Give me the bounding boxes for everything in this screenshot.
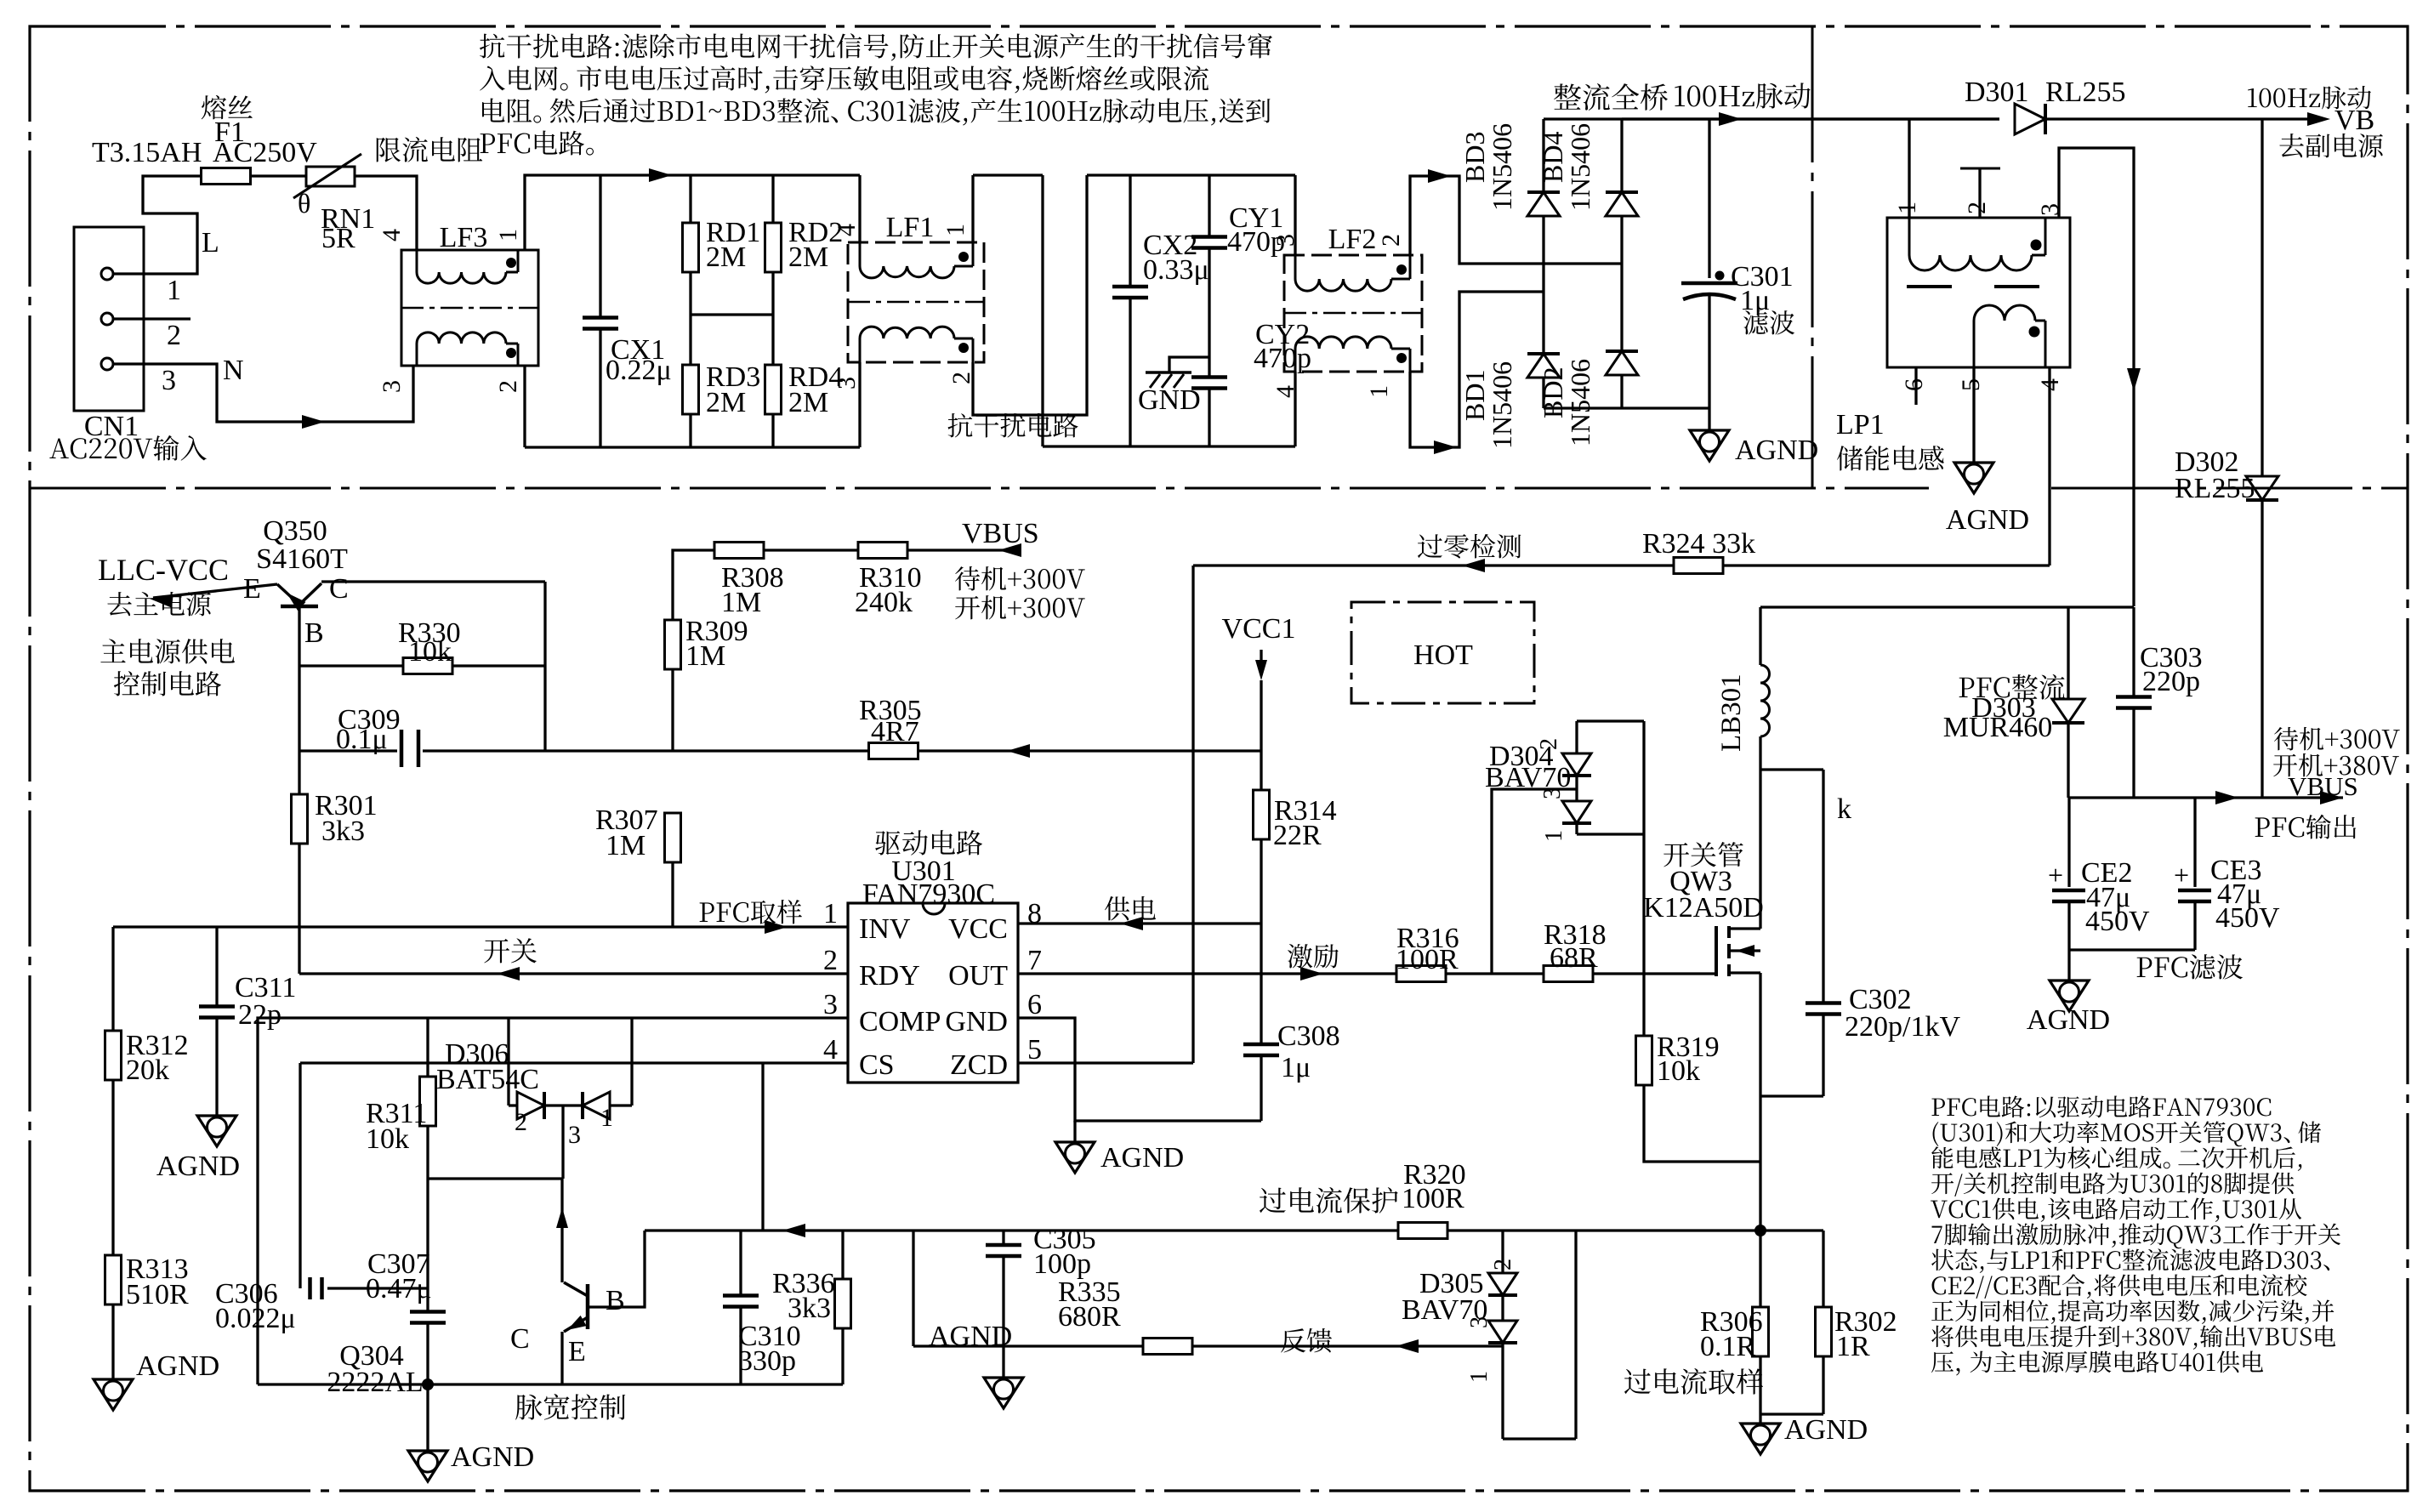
svg-text:3: 3 — [823, 989, 838, 1020]
wire LF3 pin2 to bottom bus — [523, 366, 526, 447]
svg-text:INV: INV — [859, 913, 911, 945]
svg-text:1: 1 — [1365, 385, 1393, 398]
wire LF2 pin3 riser — [1294, 175, 1296, 255]
svg-text:470p: 470p — [1254, 343, 1311, 374]
svg-text:AGND: AGND — [1735, 435, 1818, 466]
drive line 激励 — [1016, 972, 1019, 975]
svg-text:ZCD: ZCD — [950, 1049, 1008, 1081]
resistor R310 — [858, 543, 907, 559]
svg-text:3: 3 — [833, 377, 861, 389]
svg-text:HOT: HOT — [1413, 639, 1473, 671]
wire QW3 source down — [1759, 973, 1761, 1231]
svg-text:COMP: COMP — [859, 1006, 941, 1037]
svg-text:2: 2 — [167, 320, 181, 351]
HOT zone box — [1351, 602, 1534, 703]
svg-text:2M: 2M — [706, 242, 746, 273]
label 主电源供电控制电路 — [100, 639, 125, 662]
diode D303 — [2067, 607, 2069, 699]
svg-text:2: 2 — [1536, 738, 1562, 750]
svg-text:BD2: BD2 — [1538, 367, 1568, 418]
fuse F1 — [202, 168, 251, 185]
capacitor C311 — [215, 927, 218, 1007]
svg-text:100R: 100R — [1402, 1183, 1464, 1214]
wire LP1 pin1 from 100Hz bus — [1908, 119, 1910, 218]
svg-text:1M: 1M — [606, 830, 645, 861]
svg-text:220p: 220p — [2142, 666, 2200, 697]
capacitor C305 — [1002, 1231, 1004, 1245]
svg-text:4: 4 — [378, 229, 406, 242]
svg-text:1: 1 — [167, 275, 181, 306]
svg-text:1M: 1M — [721, 587, 761, 618]
svg-text:0.22μ: 0.22μ — [606, 355, 672, 386]
diode D302 — [2261, 119, 2263, 476]
svg-text:N: N — [223, 355, 244, 386]
svg-text:FAN7930C: FAN7930C — [862, 878, 995, 910]
svg-text:D301: D301 — [1965, 77, 2029, 108]
svg-text:AGND: AGND — [136, 1350, 219, 1382]
svg-text:7: 7 — [1027, 945, 1042, 976]
pulse width line 脉宽控制 — [258, 1383, 843, 1385]
diode BD4 — [1620, 119, 1623, 192]
hot/cold divider chain line — [30, 487, 1929, 490]
INV sampling line PFC取样 — [113, 925, 848, 928]
wire CN1 pin1 to fuse — [113, 176, 202, 274]
svg-text:1N5406: 1N5406 — [1565, 123, 1595, 211]
resistor R314 — [1260, 680, 1262, 792]
svg-text:E: E — [243, 573, 261, 605]
capacitor C309 — [299, 749, 397, 752]
svg-text:22p: 22p — [238, 999, 282, 1031]
svg-text:MUR460: MUR460 — [1943, 712, 2052, 743]
svg-text:VB: VB — [2334, 105, 2374, 136]
wire Q350 base down — [298, 606, 300, 666]
svg-text:0.022μ: 0.022μ — [215, 1303, 296, 1334]
svg-text:1N5406: 1N5406 — [1487, 361, 1517, 449]
resistor RD3 — [683, 365, 699, 414]
EMI bottom bus right — [1043, 445, 1295, 447]
svg-text:S4160T: S4160T — [256, 543, 348, 575]
LP1 primary winding — [1908, 218, 1911, 255]
svg-text:1R: 1R — [1836, 1331, 1870, 1362]
transistor Q304 — [586, 1284, 590, 1329]
wire CN1 pin3 to LF3 pin3 — [113, 364, 413, 422]
line filter LF2 — [1284, 255, 1422, 372]
capacitor C302 — [1822, 770, 1824, 1003]
COMP line — [258, 1018, 848, 1384]
svg-text:240k: 240k — [855, 587, 913, 618]
svg-text:LF2: LF2 — [1328, 224, 1377, 255]
svg-text:2: 2 — [515, 1108, 527, 1136]
label PFC滤波 — [2137, 958, 2152, 977]
ground AGND U301 — [1073, 1121, 1076, 1142]
wire fuse to RN1 — [250, 174, 306, 177]
svg-text:Q350: Q350 — [263, 515, 327, 547]
svg-text:1N5406: 1N5406 — [1487, 123, 1517, 211]
ground GND symbol — [1146, 371, 1191, 374]
svg-text:LB301: LB301 — [1716, 674, 1747, 752]
svg-text:T3.15AH: T3.15AH — [92, 137, 202, 168]
capacitor C308 — [1260, 924, 1262, 1045]
LP1 aux winding — [1973, 321, 1976, 367]
svg-text:B: B — [606, 1285, 625, 1316]
svg-text:510R: 510R — [126, 1279, 189, 1310]
resistor R324 — [1674, 558, 1723, 574]
capacitor C307 — [426, 1179, 429, 1312]
svg-text:4: 4 — [823, 1034, 838, 1066]
LP1 pin2 stub — [1978, 168, 1981, 218]
over-current protect line 过电流保护 — [645, 1229, 1823, 1231]
diode D306 dual BAT54C — [507, 1018, 509, 1106]
svg-text:3k3: 3k3 — [321, 816, 365, 847]
diode BD1 — [1527, 352, 1560, 355]
annotation paragraph top — [480, 34, 504, 59]
drain node wire k — [1760, 605, 2134, 608]
ground AGND LP1 — [1954, 463, 1993, 493]
diode D305 dual BAV70 — [1501, 1231, 1504, 1273]
VBUS output bus — [2069, 796, 2343, 799]
svg-text:0.33μ: 0.33μ — [1143, 254, 1209, 286]
svg-text:LF1: LF1 — [886, 212, 935, 243]
capacitor C310 — [739, 1231, 742, 1296]
svg-text:2: 2 — [823, 945, 838, 976]
svg-text:CN1: CN1 — [84, 411, 139, 442]
svg-text:1μ: 1μ — [1740, 285, 1770, 316]
svg-text:5: 5 — [1957, 378, 1985, 391]
svg-text:1: 1 — [823, 898, 838, 929]
zero-cross line 过零检测 — [1193, 564, 2050, 566]
svg-text:3: 3 — [1466, 1316, 1493, 1328]
wire LF2 pin2 to bridge AC1 — [1410, 176, 1622, 264]
svg-text:3: 3 — [378, 380, 406, 393]
svg-text:3: 3 — [162, 365, 176, 396]
resistor R301 — [298, 666, 300, 795]
svg-text:CS: CS — [859, 1049, 895, 1081]
svg-text:22R: 22R — [1273, 820, 1322, 851]
svg-text:k: k — [1837, 793, 1851, 825]
svg-text:1μ: 1μ — [1281, 1052, 1311, 1083]
resistor R309 — [665, 620, 681, 669]
svg-text:3k3: 3k3 — [788, 1293, 831, 1324]
svg-text:2: 2 — [1377, 234, 1405, 247]
svg-text:2M: 2M — [788, 387, 828, 418]
caption 整流全桥 — [1554, 83, 1581, 109]
resistor R335 — [1143, 1339, 1192, 1355]
wire rail swap vertical — [1041, 175, 1044, 446]
wire R307 to INV line — [671, 861, 674, 927]
svg-text:2: 2 — [1963, 202, 1991, 214]
wire R311 to Q304 collector link — [428, 1177, 563, 1179]
svg-text:3: 3 — [568, 1121, 581, 1149]
wire LF1 pin2 zigzag — [973, 175, 1087, 415]
resistor R313 — [105, 1255, 122, 1305]
svg-text:2: 2 — [947, 372, 975, 384]
wire LF1 pin1 riser — [971, 175, 974, 242]
svg-text:680R: 680R — [1058, 1301, 1121, 1333]
svg-text:0.47μ: 0.47μ — [366, 1273, 432, 1305]
svg-text:10k: 10k — [1657, 1055, 1700, 1087]
wire LP1 pin3 loop to drain node — [2059, 148, 2134, 606]
svg-text:4R7: 4R7 — [871, 716, 919, 747]
wire RN1 to LF3 pin4 — [355, 176, 417, 250]
EMI bottom bus left — [525, 446, 860, 448]
svg-text:3: 3 — [2036, 203, 2064, 216]
diode D304 dual — [1577, 719, 1644, 722]
wire LF2 pin1 to bridge AC2 — [1410, 292, 1544, 447]
inductor LP1 box — [1887, 218, 2070, 367]
transistor Q350 — [281, 605, 318, 609]
diode BD2 — [1606, 350, 1638, 353]
bridge bottom bus — [1544, 406, 1709, 409]
svg-text:3: 3 — [1539, 787, 1566, 799]
feedback line 反馈 — [912, 1231, 914, 1346]
svg-text:GND: GND — [945, 1006, 1008, 1037]
capacitor CX1 — [599, 175, 601, 318]
svg-text:C308: C308 — [1277, 1020, 1340, 1052]
wire LF3 pin1 to top bus — [525, 175, 860, 250]
svg-text:GND: GND — [1138, 384, 1201, 416]
svg-text:LLC-VCC: LLC-VCC — [98, 553, 229, 587]
wire CS drop to OCP line — [761, 1063, 764, 1231]
svg-text:AGND: AGND — [1946, 504, 2029, 536]
svg-text:1: 1 — [600, 1104, 613, 1132]
caption 抗干扰电路 — [948, 413, 973, 437]
label 过电流取样 — [1624, 1369, 1651, 1395]
caption 100Hz脉动 right — [2248, 88, 2257, 107]
ground AGND R306 — [1759, 1414, 1761, 1424]
svg-text:AGND: AGND — [2027, 1004, 2110, 1036]
svg-text:2M: 2M — [788, 242, 828, 273]
resistor RD2 — [771, 175, 774, 223]
ground AGND bridge — [1708, 408, 1710, 430]
svg-text:5R: 5R — [321, 223, 355, 254]
svg-text:+: + — [2048, 860, 2063, 890]
ZCD line pin5 — [1018, 1061, 1193, 1064]
resistor R316 — [1396, 966, 1446, 982]
wire LF2 pin4 riser — [1294, 372, 1296, 446]
svg-text:OUT: OUT — [948, 960, 1008, 992]
svg-text:θ: θ — [298, 188, 310, 219]
connector CN1 — [74, 227, 144, 411]
svg-text:VCC1: VCC1 — [1222, 613, 1296, 645]
svg-text:AGND: AGND — [1784, 1414, 1868, 1446]
svg-text:100R: 100R — [1396, 944, 1459, 975]
svg-text:0.1R: 0.1R — [1700, 1331, 1756, 1362]
svg-text:220p/1kV: 220p/1kV — [1845, 1011, 1960, 1043]
LP1 pin6 stub — [1914, 367, 1917, 405]
svg-text:1M: 1M — [685, 640, 725, 672]
svg-text:+: + — [2174, 860, 2189, 890]
CS line — [300, 1061, 848, 1064]
capacitor CE3 — [2193, 798, 2196, 887]
capacitor CE2 — [2067, 798, 2070, 887]
line filter LF1 — [848, 242, 984, 362]
GND line pin6 — [1018, 1018, 1261, 1121]
svg-text:1N5406: 1N5406 — [1565, 359, 1595, 446]
svg-text:AGND: AGND — [451, 1441, 534, 1473]
svg-text:RDY: RDY — [859, 960, 920, 992]
svg-text:VBUS: VBUS — [962, 518, 1039, 549]
ground AGND C307 — [426, 1384, 429, 1451]
wire CE2 CE3 bottom — [2069, 948, 2195, 951]
caption 去副电源 — [2279, 134, 2303, 157]
labels QW3 — [1663, 843, 1689, 867]
line filter LF3 — [401, 250, 538, 366]
svg-text:6: 6 — [1900, 378, 1928, 391]
resistor R336 — [841, 1231, 844, 1280]
wire k node to C302 — [1760, 768, 1823, 770]
ground AGND C311 — [197, 1116, 236, 1146]
resistor R302 — [1822, 1231, 1824, 1308]
svg-text:4: 4 — [2036, 378, 2064, 391]
resistor R311 — [426, 1018, 429, 1077]
top bus swap to LF2 — [1087, 173, 1295, 176]
svg-text:20k: 20k — [126, 1054, 169, 1086]
inductor LB301 — [1759, 607, 1761, 665]
svg-text:1: 1 — [1893, 202, 1921, 214]
diode BD3 — [1542, 119, 1544, 192]
svg-text:R324 33k: R324 33k — [1642, 528, 1755, 560]
svg-text:450V: 450V — [2215, 902, 2280, 934]
wire D306 pin3 down — [561, 1106, 564, 1179]
svg-text:RL255: RL255 — [2045, 77, 2125, 108]
svg-text:LF3: LF3 — [440, 222, 488, 253]
svg-text:LP1: LP1 — [1836, 409, 1885, 441]
svg-text:AC250V: AC250V — [213, 137, 317, 168]
MOSFET QW3 — [1715, 926, 1718, 976]
capacitor C303 — [2132, 607, 2135, 697]
svg-text:2222AL: 2222AL — [327, 1367, 423, 1398]
resistor R308 — [673, 550, 715, 751]
svg-text:C: C — [510, 1323, 530, 1355]
svg-text:1: 1 — [1541, 830, 1567, 842]
capacitor CY2 — [1191, 375, 1227, 379]
LP1 core bars — [1907, 285, 1952, 288]
LP1 pin4 to zero-cross line — [2048, 367, 2050, 566]
resistor R320 — [1398, 1223, 1447, 1239]
svg-text:6: 6 — [1027, 989, 1042, 1020]
top bus LF1 to swap point — [973, 173, 1043, 176]
labels PFC output — [2274, 727, 2298, 751]
svg-text:AGND: AGND — [1100, 1142, 1184, 1174]
svg-text:L: L — [202, 227, 219, 259]
svg-text:BD3: BD3 — [1459, 132, 1490, 183]
svg-text:2: 2 — [494, 380, 522, 393]
ground GND tap — [1169, 357, 1209, 372]
supply line 供电 pin8 — [1018, 922, 1261, 924]
svg-text:5: 5 — [1027, 1034, 1042, 1066]
resistor R306 — [1759, 1231, 1761, 1308]
svg-text:2: 2 — [1490, 1259, 1516, 1270]
svg-text:C: C — [329, 573, 349, 605]
IC U301 FAN7930C — [848, 903, 1018, 1083]
resistor R305 — [869, 743, 918, 759]
capacitor C306 — [299, 1063, 301, 1288]
capacitor CY1 — [1208, 175, 1210, 236]
resistor R330 — [299, 664, 405, 667]
arrow to VB — [2307, 112, 2330, 126]
svg-text:2M: 2M — [706, 387, 746, 418]
wire CN1 pin2 stub — [113, 317, 191, 320]
svg-text:BAT54C: BAT54C — [436, 1064, 539, 1095]
svg-text:BD1: BD1 — [1459, 370, 1490, 421]
annotation paragraph right — [1931, 1099, 1944, 1116]
label 脉宽控制 — [515, 1395, 542, 1420]
svg-text:VBUS: VBUS — [2288, 771, 2358, 801]
svg-text:100p: 100p — [1033, 1248, 1091, 1280]
switch line 开关 — [299, 972, 848, 975]
ground AGND CE2 — [2067, 950, 2070, 981]
wire LP1 pin5 to AGND — [1972, 367, 1975, 463]
wire Q350 collector down — [543, 582, 546, 751]
resistor R312 — [111, 927, 114, 1032]
wire R306 R302 bottom — [1760, 1413, 1823, 1415]
wire LF1 pin3 riser — [858, 362, 861, 447]
varistor RN1 — [306, 167, 355, 186]
bridge top bus — [1544, 117, 1999, 120]
wire LF1 pin4 riser — [858, 175, 861, 242]
svg-text:0.1μ: 0.1μ — [336, 724, 388, 755]
svg-text:1: 1 — [494, 229, 522, 242]
svg-text:450V: 450V — [2085, 906, 2150, 937]
diode D301 — [2015, 104, 2045, 134]
capacitor CX2 — [1129, 175, 1131, 287]
svg-text:330p: 330p — [738, 1345, 796, 1377]
svg-text:1: 1 — [941, 224, 970, 236]
caption 100Hz脉动 — [1675, 86, 1685, 106]
wire 100Hz bus — [1622, 117, 1999, 120]
svg-text:4: 4 — [833, 224, 861, 236]
svg-text:BD4: BD4 — [1538, 132, 1568, 183]
svg-text:68R: 68R — [1550, 942, 1598, 974]
svg-text:1: 1 — [1466, 1371, 1493, 1383]
ground AGND C305 — [984, 1378, 1023, 1408]
wire RD mid junction — [691, 313, 773, 315]
svg-text:AGND: AGND — [156, 1151, 240, 1182]
resistor RD4 — [765, 365, 782, 414]
svg-text:10k: 10k — [408, 636, 452, 668]
ground AGND R313 — [94, 1379, 133, 1410]
svg-text:VCC: VCC — [948, 913, 1008, 945]
resistor R307 — [665, 813, 681, 862]
svg-text:B: B — [304, 617, 324, 649]
svg-text:E: E — [568, 1336, 586, 1367]
hot zone vertical chain line — [1811, 26, 1814, 488]
capacitor C301 — [1708, 119, 1710, 278]
wire C309 line to VCC1 node — [545, 749, 1261, 752]
svg-text:10k: 10k — [366, 1123, 409, 1155]
resistor R319 — [1642, 974, 1645, 1037]
svg-text:RL255: RL255 — [2175, 473, 2255, 504]
resistor RD1 — [689, 175, 691, 223]
svg-text:K12A50D: K12A50D — [1643, 892, 1764, 924]
resistor R318 — [1544, 966, 1593, 982]
